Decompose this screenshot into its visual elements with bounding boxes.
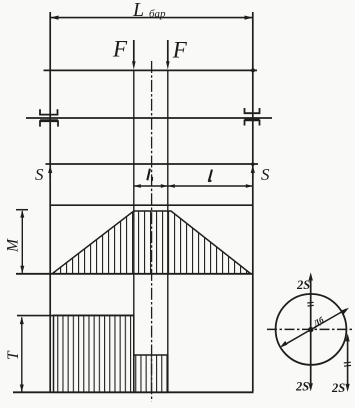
wire shaft top line: [44, 69, 258, 71]
wire shaft right edge vertical: [167, 70, 169, 392]
svg-text:F: F: [172, 38, 188, 63]
wire bottom baseline: [13, 391, 254, 393]
svg-text:бар: бар: [149, 8, 166, 20]
wire shaft left edge vertical: [133, 70, 135, 392]
bearing left: [40, 109, 58, 126]
wire bearing line: [26, 117, 272, 119]
wire shaft axis centerline: [151, 61, 153, 402]
force F2 arrow: [166, 40, 170, 70]
pulley vertical force line 2S: [309, 272, 313, 391]
pulley circle: [276, 294, 347, 365]
wire S reaction line: [46, 163, 259, 165]
junction blob right of shaft top line: [251, 68, 255, 72]
dimension line L_bar: [50, 16, 253, 20]
torque diagram small rectangle: [134, 355, 168, 392]
tick marks on vertical force line: [307, 302, 314, 306]
svg-text:S: S: [261, 165, 270, 184]
diameter line D_b: [280, 308, 349, 348]
wire M section top line: [50, 204, 253, 206]
label L_bar: [132, 0, 166, 21]
wire right extension vertical: [252, 12, 254, 392]
wire M top extension: [16, 209, 28, 211]
svg-text:2S: 2S: [295, 380, 309, 394]
label l1: [147, 169, 152, 181]
bearing right: [245, 108, 260, 126]
dimension T: [20, 317, 24, 393]
pulley horizontal axis dash-dot: [267, 328, 354, 330]
svg-text:T: T: [5, 350, 22, 360]
dimension l1: [134, 184, 168, 188]
reaction arrow S right: [251, 163, 255, 179]
pulley center hub dot: [308, 327, 313, 332]
wire T top edge and extension: [17, 315, 134, 317]
label l: [209, 170, 212, 182]
svg-text:2S: 2S: [331, 381, 345, 395]
torque diagram big rectangle: [54, 315, 134, 392]
wire left extension vertical: [49, 12, 51, 393]
wire M baseline: [16, 273, 253, 275]
svg-text:L: L: [132, 0, 144, 21]
belt force line 2S right: [346, 333, 350, 392]
reaction arrow S left: [48, 165, 52, 178]
force F1 arrow: [132, 40, 136, 70]
tick marks on right force line: [344, 362, 351, 366]
svg-text:S: S: [35, 165, 44, 184]
svg-text:2S: 2S: [296, 278, 310, 292]
svg-text:M: M: [5, 238, 22, 253]
dimension M: [20, 210, 24, 273]
svg-text:F: F: [112, 37, 128, 62]
dimension l: [168, 184, 253, 188]
moment diagram trapezoid: [52, 211, 251, 274]
